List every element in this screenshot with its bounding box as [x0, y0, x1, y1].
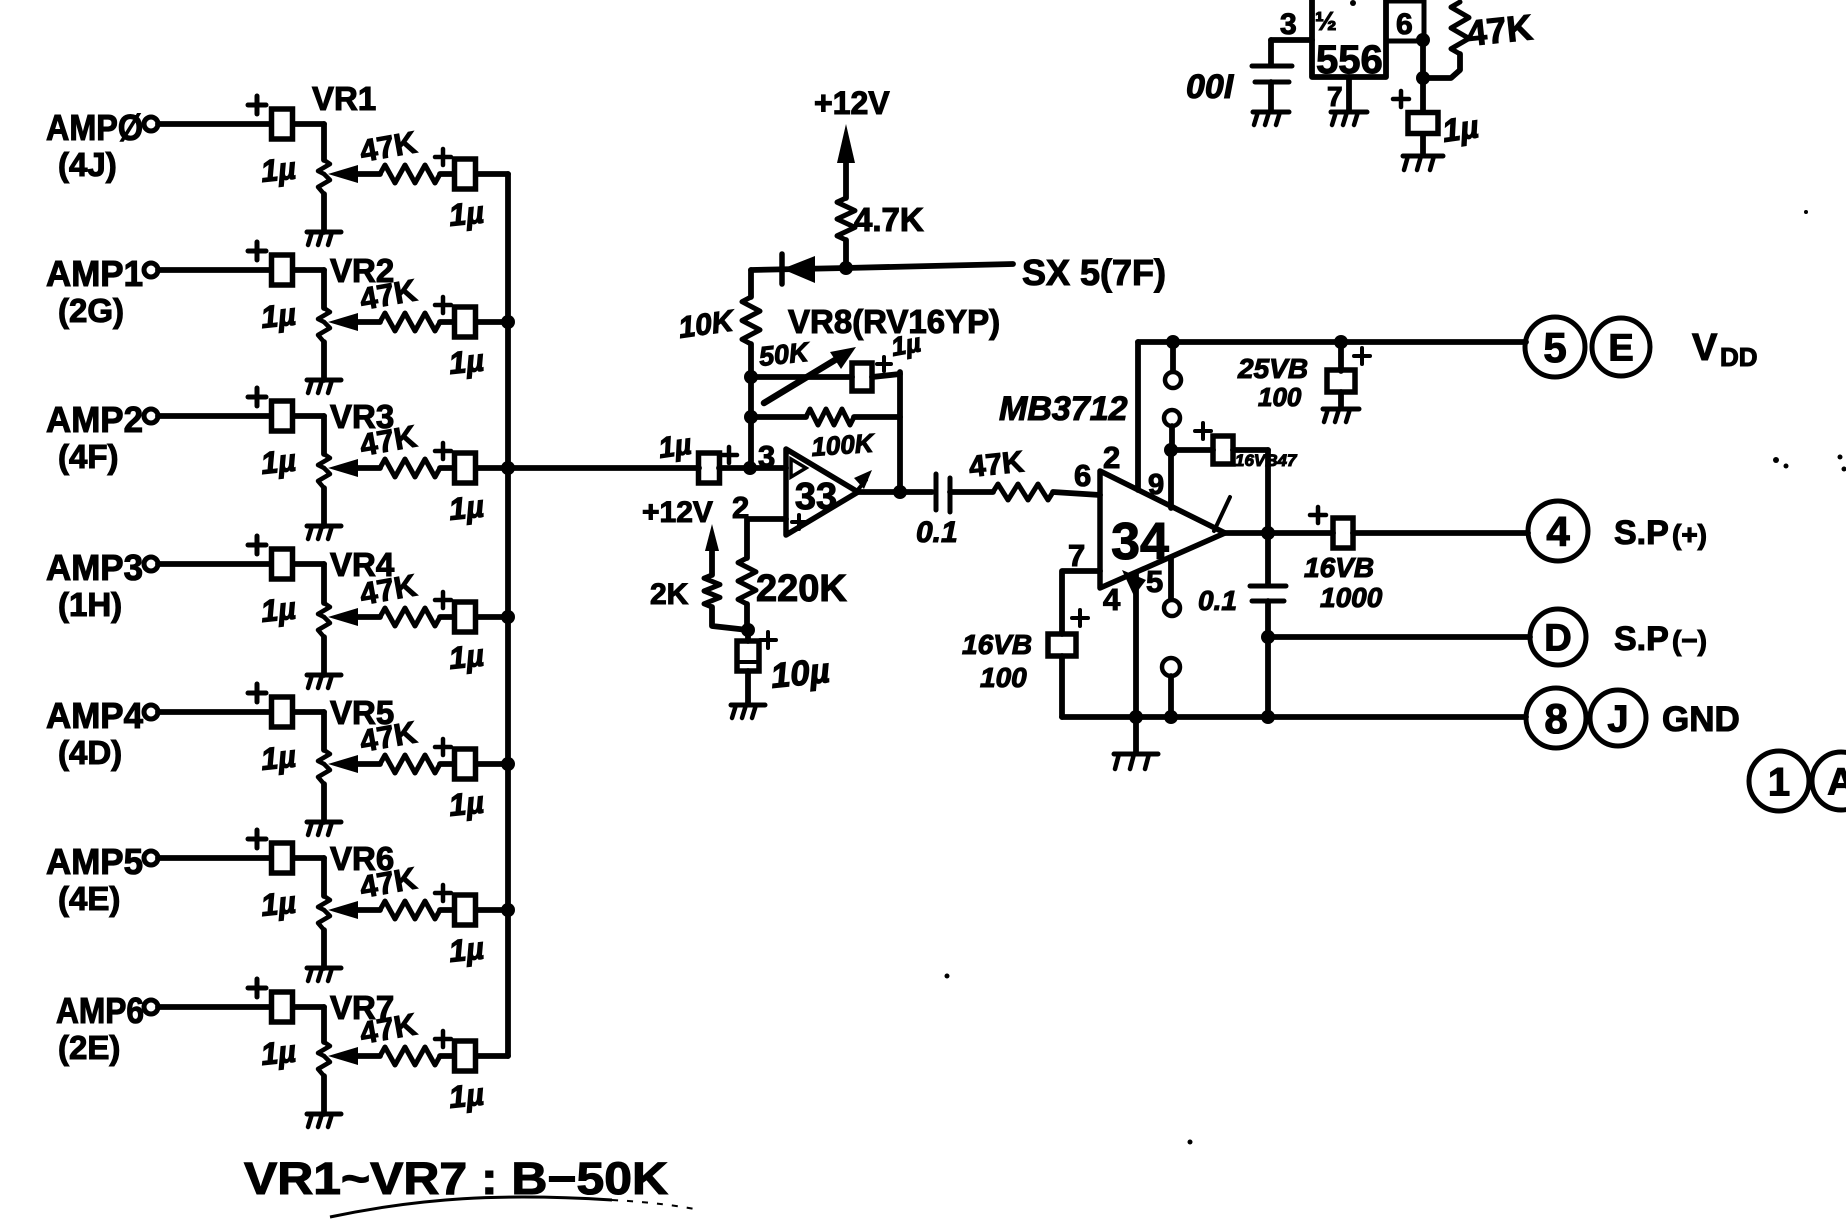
- svg-text:100K: 100K: [810, 428, 876, 462]
- capacitor C 1µ row 5 output: [435, 739, 486, 823]
- potentiometer VR4 B-50K: [318, 546, 395, 675]
- capacitor 25VB 100 on VDD rail: [1237, 335, 1370, 412]
- input terminal AMP4 (4D): [46, 695, 158, 771]
- resistor 2K: [650, 575, 720, 611]
- capacitor C 1µ input row 2: [248, 242, 324, 335]
- junction SP- node: [1261, 630, 1275, 644]
- capacitor C 1µ row 3 output: [435, 443, 486, 527]
- capacitor 16VB 100 (pin7): [962, 610, 1088, 717]
- pin 4 wire of 34: [1103, 570, 1146, 717]
- svg-text:1µ: 1µ: [657, 429, 694, 465]
- svg-text:1µ: 1µ: [447, 930, 486, 968]
- svg-text:(4D): (4D): [58, 734, 122, 771]
- svg-text:1µ: 1µ: [447, 784, 486, 822]
- ground below VR6: [307, 968, 341, 981]
- svg-text:(4J): (4J): [58, 146, 117, 183]
- wire AMP1 input to capacitor: [158, 267, 271, 273]
- junction pin6 node: [1416, 71, 1430, 85]
- potentiometer VR1 B-50K: [312, 80, 376, 232]
- svg-text:DD: DD: [1720, 342, 1758, 372]
- capacitor 0.1 coupling: [916, 474, 993, 549]
- wire row 6 to summing bus: [476, 907, 508, 913]
- svg-text:AMP5: AMP5: [46, 841, 143, 882]
- wire row 1 to summing bus: [476, 171, 508, 177]
- capacitor C 1µ input row 3: [248, 388, 324, 481]
- svg-text:E: E: [1608, 328, 1633, 370]
- potentiometer VR2 B-50K: [318, 252, 394, 380]
- ground below VR4: [307, 675, 341, 688]
- resistor 4.7K: [837, 198, 924, 268]
- note VR1~VR7 : B-50K: [244, 1153, 669, 1204]
- svg-text:1µ: 1µ: [447, 637, 486, 675]
- ground below 0.01: [1253, 112, 1289, 125]
- svg-text:10µ: 10µ: [769, 651, 832, 696]
- op-amp U1 (33): [786, 449, 858, 535]
- summing bus vertical wire: [505, 174, 511, 1056]
- svg-text:1µ: 1µ: [447, 342, 486, 380]
- connector pin (5): [1525, 317, 1585, 377]
- resistor 47K row 1: [357, 124, 440, 183]
- junction pin6 box corner: [1416, 33, 1430, 47]
- svg-text:(2G): (2G): [58, 292, 124, 329]
- input terminal AMPØ (4J): [46, 107, 158, 183]
- capacitor 0.1 zobel: [1198, 533, 1286, 716]
- resistor 10K: [676, 297, 760, 345]
- svg-text:1µ: 1µ: [259, 442, 298, 480]
- capacitor C 1µ input row 6: [248, 830, 324, 923]
- wire row 2 to summing bus: [476, 319, 508, 325]
- pin 3 wire of 556: [1271, 8, 1312, 41]
- potentiometer VR5 B-50K: [318, 694, 394, 822]
- capacitor C 1µ row 1 output: [435, 149, 486, 233]
- svg-text:47K: 47K: [1465, 6, 1535, 54]
- wire AMP5 input to capacitor: [158, 855, 271, 861]
- pin 2 wire of 34: [1103, 342, 1138, 490]
- pin 6 box of 556: [1386, 1, 1424, 41]
- pin 3 label: [758, 439, 775, 474]
- svg-text:6: 6: [1396, 8, 1413, 41]
- input terminal AMP1 (2G): [46, 253, 158, 329]
- svg-text:GND: GND: [1662, 700, 1740, 739]
- connector pin (D): [1530, 609, 1586, 665]
- junction output 34: [1261, 526, 1275, 540]
- wiper arrow VR5: [328, 755, 380, 773]
- svg-text:VR8(RV16YP): VR8(RV16YP): [788, 303, 1000, 340]
- ground below VR7: [307, 1114, 341, 1127]
- potentiometer VR3 B-50K: [318, 398, 394, 526]
- svg-text:+12V: +12V: [814, 85, 890, 121]
- svg-text:220K: 220K: [756, 568, 847, 610]
- ground below 25VB cap: [1323, 409, 1359, 422]
- resistor 47K row 5: [357, 714, 440, 773]
- svg-text:½: ½: [1315, 6, 1337, 36]
- svg-text:(4E): (4E): [58, 880, 120, 917]
- capacitor 10µ: [737, 630, 832, 704]
- wire AMP2 input to capacitor: [158, 413, 271, 419]
- label S.P(+): [1614, 514, 1707, 552]
- capacitor C 1µ input row 4: [248, 536, 324, 629]
- resistor 47K (top right): [1423, 2, 1535, 78]
- capacitor C 1µ input row 5: [248, 684, 324, 777]
- svg-text:00I: 00I: [1186, 68, 1235, 106]
- junction bus row 3: [501, 461, 515, 475]
- svg-text:100: 100: [980, 662, 1027, 693]
- ground below VR1: [307, 232, 341, 245]
- svg-text:0.1: 0.1: [916, 516, 958, 549]
- label VDD: [1692, 327, 1758, 372]
- power amp U2 (34): [1100, 471, 1225, 588]
- pin 5 stub NC: [1146, 558, 1180, 616]
- pin 7 wire of 34: [1062, 538, 1100, 634]
- svg-text:7: 7: [1068, 538, 1085, 573]
- svg-text:S.P: S.P: [1614, 514, 1669, 552]
- svg-text:100: 100: [1258, 382, 1302, 412]
- junction diode 4.7K: [839, 261, 853, 275]
- resistor 47K row 7: [357, 1006, 440, 1065]
- svg-text:VR1: VR1: [312, 80, 376, 117]
- svg-text:AMP1: AMP1: [46, 253, 143, 294]
- svg-text:J: J: [1607, 699, 1628, 741]
- svg-text:S.P: S.P: [1614, 620, 1669, 658]
- wiper arrow VR6: [328, 901, 380, 919]
- svg-text:16VB: 16VB: [962, 629, 1032, 660]
- net label SX 5(7F): [1022, 252, 1166, 293]
- wire row 5 to summing bus: [476, 761, 508, 767]
- connector pin (1): [1749, 751, 1809, 811]
- junction bus row 2: [501, 315, 515, 329]
- bootstrap capacitor 16VB 47: [1171, 423, 1298, 533]
- svg-text:1µ: 1µ: [259, 884, 298, 922]
- label GND: [1662, 700, 1740, 739]
- page curl line: [330, 1197, 700, 1217]
- wire stack vertical (diode line down to pin3): [748, 270, 754, 468]
- trimmer VR8 50K with capacitor 1µ: [751, 327, 923, 403]
- svg-text:SX 5(7F): SX 5(7F): [1022, 252, 1166, 293]
- resistor 100K feedback: [751, 409, 900, 462]
- svg-text:5: 5: [1146, 564, 1163, 599]
- svg-text:(4F): (4F): [58, 438, 119, 475]
- ground below 1µ: [1403, 156, 1443, 170]
- resistor 47K row 6: [357, 860, 440, 919]
- capacitor C 1µ row 2 output: [435, 297, 486, 381]
- svg-text:(+): (+): [1672, 519, 1707, 550]
- capacitor 16VB 1000 output: [1304, 507, 1528, 613]
- wiper arrow VR2: [328, 313, 380, 331]
- capacitor 0.01: [1186, 40, 1292, 110]
- junction bus row 5: [501, 757, 515, 771]
- svg-text:3: 3: [758, 439, 775, 474]
- svg-text:5: 5: [1543, 324, 1566, 371]
- feedback vertical wire: [897, 372, 903, 492]
- wire row 4 to summing bus: [476, 614, 508, 620]
- svg-text:9: 9: [1148, 469, 1164, 501]
- wire 220K to bias node: [744, 604, 750, 630]
- svg-text:50K: 50K: [757, 337, 812, 372]
- svg-text:34: 34: [1111, 513, 1169, 571]
- svg-text:D: D: [1544, 618, 1571, 660]
- svg-text:AMP6: AMP6: [56, 990, 144, 1031]
- svg-text:(1H): (1H): [58, 586, 122, 623]
- svg-text:1µ: 1µ: [447, 194, 486, 232]
- wire row 3 to summing bus: [476, 465, 508, 471]
- junction NC ground rail: [1164, 710, 1178, 724]
- connector pin (E): [1592, 318, 1650, 376]
- stray marks: [1773, 210, 1846, 472]
- wire output 34: [1225, 530, 1333, 536]
- connector pin (A): [1812, 752, 1846, 810]
- label S.P(-): [1614, 620, 1707, 658]
- svg-text:1000: 1000: [1320, 582, 1383, 613]
- svg-text:33: 33: [795, 476, 837, 518]
- connector pin (8): [1526, 688, 1586, 748]
- wire pin6 down: [1420, 40, 1426, 78]
- svg-text:A: A: [1827, 762, 1846, 804]
- wire 2K to bias node: [712, 607, 748, 630]
- svg-text:16VB: 16VB: [1304, 552, 1374, 583]
- pin 6 label: [1074, 458, 1091, 493]
- capacitor C 1µ row 7 output: [435, 1031, 486, 1115]
- wiper arrow VR1: [328, 165, 380, 183]
- pin 9 wire: [1148, 450, 1171, 508]
- connector pin (4): [1528, 501, 1588, 561]
- pin 7 of 556: [1327, 77, 1349, 112]
- potentiometer VR7 B-50K: [318, 989, 394, 1114]
- svg-text:(−): (−): [1672, 625, 1707, 656]
- wiper arrow VR4: [328, 608, 380, 626]
- NC pin stub upper: [1165, 342, 1181, 388]
- svg-text:V: V: [1692, 327, 1718, 369]
- wire summing bus to mixer capacitor: [508, 465, 699, 471]
- svg-text:2K: 2K: [650, 578, 689, 611]
- svg-text:47K: 47K: [967, 445, 1026, 484]
- svg-text:1µ: 1µ: [1440, 108, 1481, 149]
- svg-text:MB3712: MB3712: [999, 390, 1128, 428]
- input terminal AMP6 (2E): [56, 990, 158, 1066]
- potentiometer VR6 B-50K: [318, 840, 394, 968]
- svg-text:4: 4: [1103, 582, 1121, 617]
- ground below 10µ: [731, 705, 765, 718]
- resistor 220K: [738, 558, 847, 610]
- wire to S.P(-): [1268, 634, 1530, 640]
- svg-text:AMPØ: AMPØ: [46, 107, 143, 148]
- svg-text:1µ: 1µ: [447, 1076, 486, 1114]
- svg-text:(2E): (2E): [58, 1029, 120, 1066]
- wire diode line: [751, 264, 1013, 270]
- svg-text:VR1~VR7 : B−50K: VR1~VR7 : B−50K: [244, 1153, 669, 1204]
- junction rail NC stub: [1166, 335, 1180, 349]
- capacitor C 1µ mixer input: [657, 429, 786, 483]
- wiper arrow VR3: [328, 459, 380, 477]
- junction bus row 4: [501, 610, 515, 624]
- ground rail wire: [1062, 714, 1526, 720]
- label VR8: [788, 303, 1000, 340]
- wire AMPØ input to capacitor: [158, 121, 271, 127]
- capacitor C 1µ input row 7: [248, 979, 324, 1072]
- wire op-amp output: [858, 489, 932, 495]
- wiper arrow VR7: [328, 1047, 380, 1065]
- capacitor 1µ (top right): [1393, 78, 1481, 154]
- junction bus row 6: [501, 903, 515, 917]
- IC 556 box (cut off at top): [1312, 0, 1386, 82]
- svg-text:4: 4: [1546, 508, 1570, 555]
- svg-text:1µ: 1µ: [259, 590, 298, 628]
- input terminal AMP3 (1H): [46, 547, 158, 623]
- junction 50K branch: [744, 370, 758, 384]
- resistor 47K row 2: [357, 272, 440, 331]
- svg-text:AMP3: AMP3: [46, 547, 143, 588]
- svg-text:AMP4: AMP4: [46, 695, 143, 736]
- power +12V (bias): [642, 496, 719, 575]
- junction node pin3: [743, 461, 757, 475]
- svg-text:3: 3: [1280, 8, 1297, 41]
- ground below pin7: [1331, 112, 1367, 125]
- svg-text:+12V: +12V: [642, 496, 713, 529]
- svg-text:0.1: 0.1: [1198, 585, 1237, 616]
- NC pin stub lower: [1164, 410, 1180, 450]
- junction bias node: [741, 623, 755, 637]
- diode D1: [782, 254, 815, 284]
- svg-text:4.7K: 4.7K: [854, 201, 924, 238]
- power +12V (top): [814, 85, 890, 198]
- capacitor C 1µ input row 1: [248, 96, 324, 189]
- ground below VR5: [307, 822, 341, 835]
- resistor 47K coupling: [967, 445, 1100, 500]
- resistor 47K row 3: [357, 418, 440, 477]
- connector pin (J): [1590, 690, 1646, 746]
- svg-text:1µ: 1µ: [259, 1033, 298, 1071]
- svg-text:2: 2: [1103, 440, 1120, 475]
- svg-text:AMP2: AMP2: [46, 399, 143, 440]
- svg-text:1µ: 1µ: [447, 488, 486, 526]
- top rail VDD wire: [1138, 339, 1526, 345]
- IC label MB3712: [999, 390, 1128, 428]
- input terminal AMP2 (4F): [46, 399, 158, 475]
- input terminal AMP5 (4E): [46, 841, 158, 917]
- junction zobel ground rail: [1261, 710, 1275, 724]
- svg-text:1µ: 1µ: [259, 296, 298, 334]
- ground below VR3: [307, 526, 341, 539]
- ground below rail: [1114, 717, 1158, 769]
- svg-text:8: 8: [1544, 695, 1567, 742]
- junction pin4 ground rail: [1129, 710, 1143, 724]
- wire AMP3 input to capacitor: [158, 561, 271, 567]
- svg-text:7: 7: [1327, 81, 1343, 112]
- ground below VR2: [307, 380, 341, 393]
- NC stub on ground rail: [1162, 658, 1180, 717]
- svg-text:16VB47: 16VB47: [1235, 451, 1298, 470]
- pin 4 arrow mark of U33: [854, 470, 872, 492]
- capacitor C 1µ row 4 output: [435, 592, 486, 676]
- svg-text:1µ: 1µ: [259, 738, 298, 776]
- capacitor C 1µ row 6 output: [435, 885, 486, 969]
- pin 2 wire: [732, 490, 786, 558]
- wire row 7 to summing bus: [476, 1053, 508, 1059]
- junction output 33: [893, 485, 907, 499]
- wire AMP4 input to capacitor: [158, 709, 271, 715]
- stray dot above 556: [1350, 0, 1356, 6]
- svg-text:1: 1: [1768, 760, 1790, 804]
- svg-text:1µ: 1µ: [259, 150, 298, 188]
- stray ink dots: [945, 974, 1193, 1145]
- junction pin9 node: [1164, 443, 1178, 457]
- svg-text:6: 6: [1074, 458, 1091, 493]
- svg-text:25VB: 25VB: [1237, 353, 1308, 384]
- junction 100K branch: [744, 410, 758, 424]
- wire AMP6 input to capacitor: [158, 1004, 271, 1010]
- resistor 47K row 4: [357, 567, 440, 626]
